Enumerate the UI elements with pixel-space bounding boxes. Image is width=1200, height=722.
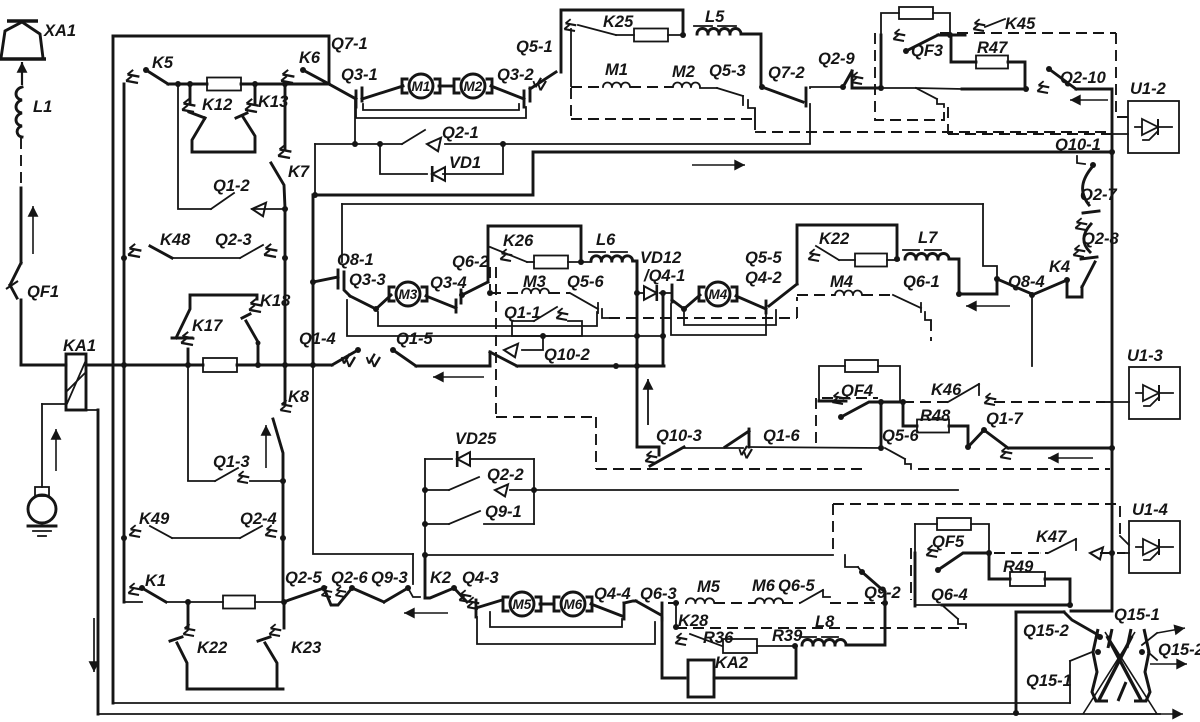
contact Q15-1 lower (1026, 652, 1092, 703)
node Q5-6 lower (878, 445, 884, 451)
svg-text:Q6-1: Q6-1 (903, 273, 940, 291)
svg-text:Q9-2: Q9-2 (864, 584, 901, 602)
wire QF4 res loop (819, 366, 845, 401)
arrow up mid (643, 379, 654, 425)
svg-text:QF3: QF3 (911, 42, 943, 60)
svg-text:QF4: QF4 (841, 382, 873, 400)
contact Q1-2 (178, 84, 288, 216)
svg-text:VD12: VD12 (640, 249, 681, 267)
diode VD12 (640, 249, 681, 301)
svg-text:K47: K47 (1036, 528, 1067, 546)
svg-text:Q15-1: Q15-1 (1026, 672, 1072, 690)
inductor L5 (694, 8, 761, 87)
relay KA1 (63, 337, 96, 410)
contact K7 (271, 84, 310, 208)
dashed link M3 M4 field (609, 297, 797, 318)
svg-text:Q8-1: Q8-1 (337, 251, 374, 269)
wire to M1 (362, 86, 403, 99)
resistor K26 (534, 256, 568, 269)
contact Q1-6 (725, 427, 881, 460)
svg-text:QF5: QF5 (932, 533, 965, 551)
svg-text:K45: K45 (1005, 15, 1036, 33)
motor return loops M5M6 (477, 612, 655, 644)
wire x283 down (282, 481, 285, 602)
arrow left under bus (433, 372, 484, 383)
motor return loops M1M2 (356, 104, 526, 118)
svg-text:VD1: VD1 (449, 154, 481, 172)
current arrow up (28, 206, 39, 254)
thyristor U1-2 (1128, 80, 1179, 153)
svg-text:L1: L1 (33, 98, 52, 116)
contact Q5-1 (516, 38, 556, 92)
breaker QF4 loop (880, 402, 883, 448)
svg-text:Q1-1: Q1-1 (504, 304, 541, 322)
wire dashed from L1 (20, 138, 22, 188)
crossover chute right (1118, 629, 1150, 701)
svg-text:Q2-1: Q2-1 (442, 124, 479, 142)
wire rail 204 (342, 203, 983, 205)
svg-text:K46: K46 (931, 381, 962, 399)
contact Q8-1 (313, 251, 374, 282)
wire Q6-3 down to KA2 row (662, 618, 685, 678)
contact K17 K18 block (172, 292, 291, 365)
field M5 M6 row (668, 577, 816, 606)
svg-text:M6: M6 (752, 577, 776, 595)
svg-text:Q3-4: Q3-4 (430, 274, 467, 292)
svg-text:K12: K12 (202, 96, 232, 114)
dashed QF3 border (875, 33, 1128, 120)
contact K4 (1029, 258, 1095, 298)
wire x313 lower (313, 365, 413, 584)
svg-text:Q1-4: Q1-4 (299, 330, 336, 348)
wire K2 drop (424, 555, 427, 598)
arrow up left column (261, 425, 272, 468)
wire mid vertical (284, 209, 287, 258)
contact K48 (121, 231, 240, 261)
svg-text:Q6-2: Q6-2 (452, 253, 489, 271)
contact Q3-3 (338, 270, 386, 312)
contact K2 (425, 569, 474, 606)
resistor R49 (989, 553, 1045, 586)
svg-text:Q4-2: Q4-2 (745, 269, 782, 287)
svg-text:R47: R47 (977, 39, 1008, 57)
wire Q10-3 to Q1-6 (684, 447, 743, 449)
svg-text:M2: M2 (464, 79, 483, 94)
svg-text:Q1-5: Q1-5 (396, 330, 434, 348)
svg-text:Q4-4: Q4-4 (594, 585, 631, 603)
arrow bottom rail (1120, 709, 1183, 720)
wire R48 to Q1-7 (949, 426, 968, 447)
svg-text:Q6-3: Q6-3 (640, 585, 677, 603)
contactor K5 (124, 54, 174, 87)
contact K1 (126, 572, 223, 605)
dashed rail 469 (596, 468, 1110, 470)
relay KA2 (688, 654, 748, 697)
contactor K26 loop (488, 226, 584, 282)
wire into U1-4 (1109, 550, 1129, 556)
svg-text:K18: K18 (260, 292, 291, 310)
svg-text:XA1: XA1 (43, 22, 76, 40)
svg-text:K48: K48 (160, 231, 191, 249)
wire left节点 vertical (312, 144, 318, 198)
arrow right mid (692, 160, 745, 171)
wire K17 to Q1-3 (187, 365, 189, 480)
svg-text:Q5-6: Q5-6 (882, 427, 920, 445)
pantograph XA1 (0, 21, 76, 59)
contact Q3-1 (329, 66, 378, 107)
contact lower QF3 branch (881, 88, 1026, 134)
motor M3 (389, 282, 427, 306)
wire bus to Q10-2 (416, 365, 490, 368)
wire into U1-3 (1105, 401, 1129, 403)
contact Q9-2 (845, 555, 901, 603)
svg-text:Q2-7: Q2-7 (1080, 186, 1118, 204)
contact R36 (690, 629, 734, 647)
wire L7 node to Q8-4 (959, 279, 997, 294)
contact Q5-6 upper (570, 293, 609, 318)
svg-text:K23: K23 (291, 639, 321, 657)
wire x637 vertical (636, 262, 639, 446)
svg-text:U1-2: U1-2 (1130, 80, 1166, 98)
wire QF5 left (914, 524, 916, 606)
contact Q2-8 (1071, 224, 1119, 261)
dashed rail 504 (833, 504, 1105, 555)
wire M5-M6 (540, 603, 554, 606)
contact Q2-3 (215, 231, 288, 261)
svg-text:R39: R39 (772, 627, 803, 645)
contact K47 (994, 528, 1125, 559)
contact K12 (180, 84, 255, 152)
svg-text:R36: R36 (703, 629, 734, 647)
svg-text:Q8-4: Q8-4 (1008, 273, 1045, 291)
resistor R48 (903, 402, 951, 433)
wire thick rail Q10-1 (313, 136, 1115, 195)
thyristor U1-4 (1129, 501, 1180, 573)
svg-text:K5: K5 (152, 54, 174, 72)
svg-text:VD25: VD25 (455, 430, 497, 448)
svg-text:Q2-6: Q2-6 (331, 569, 369, 587)
contact Q4-2 (736, 249, 797, 313)
circuit breaker QF1 (6, 263, 59, 365)
contact Q6-2 (452, 253, 489, 295)
field M1 dashes (571, 61, 695, 87)
wire arrow up from XA1 (17, 62, 28, 85)
contact Q10-1 step (1077, 156, 1096, 168)
wire M1 branch drop (354, 99, 356, 144)
svg-text:K6: K6 (299, 49, 321, 67)
svg-text:Q2-2: Q2-2 (487, 466, 524, 484)
svg-text:M1: M1 (605, 61, 628, 79)
contact Q2-10 (1035, 66, 1112, 156)
contact Q5-3 (709, 62, 755, 119)
svg-text:Q2-8: Q2-8 (1082, 230, 1120, 248)
wire Q8-4 down (1031, 294, 1033, 366)
wire Q1-7 to right (1008, 447, 1112, 450)
wire QF3 to R47 (950, 35, 976, 62)
svg-text:Q9-3: Q9-3 (371, 569, 408, 587)
resistor QF3 (899, 7, 950, 35)
wire VD25 right edge (533, 459, 535, 524)
svg-text:Q2-9: Q2-9 (818, 50, 856, 68)
contactor K6 (279, 49, 329, 87)
node dots Q15 (1095, 649, 1145, 655)
contact Q4-4 (591, 585, 636, 619)
wire lamp drop (41, 404, 43, 487)
inductor L1 (16, 87, 52, 137)
contact Q10-2 (490, 333, 590, 366)
arrow Q15 top (1142, 625, 1185, 645)
resistor QF5 (915, 518, 989, 552)
inductor L8 (800, 603, 885, 645)
svg-text:R48: R48 (920, 407, 951, 425)
contact K28 (673, 603, 709, 649)
resistor R36 (723, 627, 803, 653)
motor M5 (503, 592, 541, 616)
svg-text:Q2-4: Q2-4 (240, 510, 277, 528)
wire KA2 to node (714, 646, 796, 678)
wire R49 to Q15 (1045, 579, 1073, 608)
contact Q2-6 (331, 569, 384, 602)
svg-text:KA2: KA2 (715, 654, 748, 672)
contact Q5-6 lower (882, 427, 920, 469)
wire left inner vertical (123, 84, 126, 602)
contact Q1-4 (299, 330, 361, 368)
wire KA1 bottom loop (42, 404, 98, 410)
breaker QF5 (924, 533, 992, 573)
wire rail 143 (315, 141, 402, 147)
motor return loops M4 (671, 304, 776, 335)
wire outer box left (112, 36, 115, 703)
contact Q1-3 (188, 453, 286, 487)
svg-text:K25: K25 (603, 13, 634, 31)
svg-text:Q15-2: Q15-2 (1158, 641, 1200, 659)
wire Q1-1 line right (543, 333, 666, 339)
contact Q3-2 (491, 66, 534, 107)
contact Q8-4 (994, 273, 1045, 294)
crossover chute left (1092, 629, 1112, 701)
wire to M3 (376, 295, 391, 309)
svg-text:Q5-1: Q5-1 (516, 38, 553, 56)
wire QF1 to KA1 (21, 364, 66, 367)
contact K8 (273, 365, 310, 480)
contact Q4-1 (643, 267, 687, 312)
svg-text:Q5-3: Q5-3 (709, 62, 746, 80)
svg-text:Q1-3: Q1-3 (213, 453, 250, 471)
svg-text:Q9-1: Q9-1 (485, 503, 522, 521)
contact Q1-1 box (504, 304, 582, 336)
contact Q6-3 (636, 585, 677, 620)
svg-text:Q15-2: Q15-2 (1023, 622, 1069, 640)
contact Q10-3 (637, 427, 702, 467)
wire L6 to VD12 (634, 290, 643, 296)
wire dashed K46 row (903, 401, 1105, 403)
wire down to bottom rail (97, 410, 100, 714)
svg-text:K26: K26 (503, 232, 534, 250)
wire x663 vertical (662, 293, 665, 366)
label K25 (603, 13, 634, 31)
contact Q6-1 lower (893, 295, 931, 341)
contact Q6-5 (800, 590, 830, 603)
contact K46 (931, 381, 999, 409)
resistor on bus (185, 358, 332, 372)
chevron Q2-7 (1073, 217, 1090, 234)
svg-text:Q1-2: Q1-2 (213, 177, 250, 195)
svg-text:L5: L5 (705, 8, 725, 26)
svg-text:U1-3: U1-3 (1127, 347, 1163, 365)
arrow left right-bus (1048, 453, 1093, 464)
contact Q2-7 (1080, 166, 1118, 213)
label Q15-1 upper (1114, 606, 1160, 624)
contact Q2-1 (402, 124, 810, 151)
svg-text:QF1: QF1 (27, 283, 59, 301)
svg-text:K2: K2 (430, 569, 451, 587)
wire to QF1 (20, 188, 23, 263)
wire y604 line (942, 604, 1070, 607)
svg-text:Q6-4: Q6-4 (931, 586, 968, 604)
contact Q9-3 (371, 569, 420, 602)
contact Q2-2 (425, 466, 537, 496)
contact K13 (243, 84, 288, 116)
motor M1 (402, 74, 440, 98)
main bus (86, 362, 203, 368)
svg-text:Q2-3: Q2-3 (215, 231, 252, 249)
contactor K25 (562, 18, 634, 86)
contact K23 lower (258, 602, 321, 689)
bottom rail A (113, 702, 1070, 704)
svg-text:K49: K49 (139, 510, 170, 528)
contact Q6-4 (915, 586, 968, 628)
ground lamp (28, 487, 56, 523)
svg-text:Q10-2: Q10-2 (544, 346, 590, 364)
wire right main vertical (1109, 152, 1115, 451)
diode VD25 branch (422, 430, 534, 558)
svg-text:Q4-3: Q4-3 (462, 569, 499, 587)
wire field to Q9-2 node (830, 600, 888, 606)
arrow left Q8-4 (966, 301, 1010, 312)
motor return loops M3 (347, 300, 597, 336)
svg-text:M4: M4 (709, 287, 728, 302)
contact K45 (971, 15, 1036, 35)
thyristor U1-3 (1127, 347, 1180, 419)
svg-text:Q3-3: Q3-3 (349, 271, 386, 289)
inductor L7 (903, 229, 962, 297)
wire field dashed bus (571, 88, 1112, 132)
wire Q2-3 down (284, 258, 287, 365)
contact Q4-3 (462, 569, 502, 617)
resistor K22 (855, 254, 900, 267)
arrow down (89, 618, 100, 672)
contact Q1-5 (365, 330, 433, 368)
wire M1-M2 (439, 85, 452, 88)
dashed border mid-left (496, 267, 596, 469)
breaker QF4 (819, 382, 906, 420)
wire thick bus vertical left (310, 195, 316, 368)
svg-text:K22: K22 (819, 230, 849, 248)
crossover X (1083, 632, 1157, 714)
svg-text:K1: K1 (145, 572, 166, 590)
resistor on K5 row (207, 78, 329, 91)
svg-text:L7: L7 (918, 229, 938, 247)
wire to M4 (684, 295, 700, 309)
svg-text:M2: M2 (672, 63, 695, 81)
motor M4 (699, 282, 737, 306)
svg-text:Q6-5: Q6-5 (778, 577, 816, 595)
contact Q1-7 (965, 410, 1024, 463)
wire rail204 to Q8-4 (983, 204, 997, 279)
svg-text:K17: K17 (192, 317, 223, 335)
contact Q2-9 (818, 50, 884, 91)
chevrons Q2-5 Q2-6 (320, 585, 355, 605)
wire Q9-2 up right (884, 592, 887, 603)
field M4 winding (797, 273, 940, 295)
contact Q3-4 (426, 274, 467, 312)
wire Q15 left L (1013, 612, 1064, 716)
resistor QF4 (845, 360, 900, 402)
wire R47 to Q2-10 (1008, 62, 1029, 92)
wire rail204 left drop (341, 204, 343, 262)
dashed border QF4 (816, 398, 878, 446)
contact K49 (121, 510, 240, 541)
diode VD1 (380, 141, 506, 182)
field M2 winding (673, 83, 717, 89)
dashed rail 628 (676, 627, 966, 629)
svg-text:Q2-5: Q2-5 (285, 569, 323, 587)
svg-text:U1-4: U1-4 (1132, 501, 1168, 519)
contactor K22 upper loop (797, 225, 897, 284)
contact K22 lower (170, 602, 283, 689)
wire Q5-1 up over (561, 10, 683, 72)
label Q7-1 (331, 35, 368, 53)
wire dash to U1-2 (948, 133, 1128, 135)
arrow up beside lamp (51, 429, 62, 471)
bottom rail B (98, 713, 1160, 715)
svg-text:K4: K4 (1049, 258, 1070, 276)
ground symbol (28, 526, 56, 536)
svg-text:M5: M5 (697, 578, 721, 596)
contact Q15-2 (1023, 612, 1103, 640)
breaker QF3 (891, 28, 965, 60)
svg-text:M5: M5 (513, 597, 532, 612)
contact Q2-4 (240, 510, 286, 541)
wire Q2-2 output (534, 489, 958, 491)
motor M6 (554, 592, 592, 616)
svg-text:K7: K7 (288, 163, 310, 181)
dashed U1-4 link (1105, 504, 1129, 545)
wire K5 to resistor (168, 81, 207, 87)
svg-text:L6: L6 (596, 231, 616, 249)
motor M2 (454, 74, 492, 98)
contact Q2-5 (284, 569, 327, 602)
svg-text:KA1: KA1 (63, 337, 96, 355)
svg-text:Q10-3: Q10-3 (656, 427, 702, 445)
svg-text:M3: M3 (523, 273, 546, 291)
svg-text:Q15-1: Q15-1 (1114, 606, 1160, 624)
svg-text:K8: K8 (288, 388, 310, 406)
svg-text:Q3-1: Q3-1 (341, 66, 378, 84)
svg-text:M1: M1 (412, 79, 431, 94)
svg-text:Q2-10: Q2-10 (1060, 69, 1107, 87)
svg-text:Q7-1: Q7-1 (331, 35, 368, 53)
arrow Q15 mid (1148, 641, 1200, 669)
arrow left M5 row (404, 608, 448, 619)
resistor R47 (976, 39, 1008, 69)
svg-text:K22: K22 (197, 639, 227, 657)
svg-text:Q3-2: Q3-2 (497, 66, 534, 84)
resistor K25 (634, 29, 686, 42)
wire row554 (425, 554, 833, 556)
svg-text:M3: M3 (399, 287, 418, 302)
wire right vertical end (1071, 448, 1112, 611)
